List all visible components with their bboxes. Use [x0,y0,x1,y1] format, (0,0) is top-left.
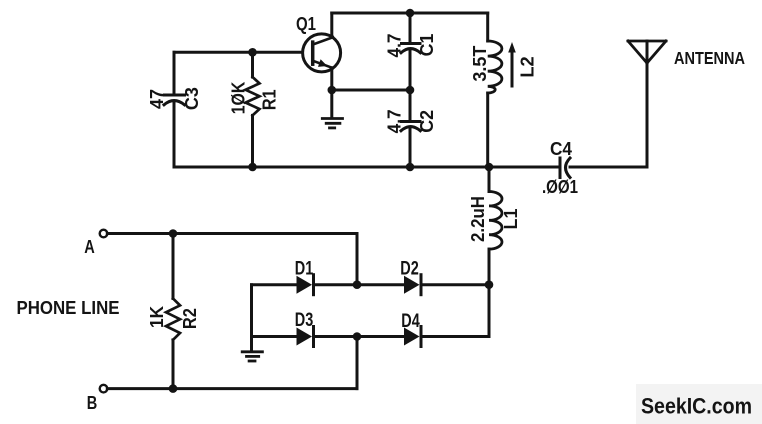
svg-text:4.7: 4.7 [385,109,405,133]
ground bridge [242,352,262,361]
svg-text:D4: D4 [401,311,420,332]
svg-text:1K: 1K [147,306,167,328]
svg-text:D3: D3 [295,310,314,331]
capacitor C1 [401,44,420,53]
wire C3 branch upper [173,52,176,95]
svg-text:Q1: Q1 [296,14,316,34]
capacitor C3 [164,95,185,105]
inductor L1 [489,192,502,250]
svg-text:D1: D1 [295,259,314,280]
wire A rail [107,232,357,235]
antenna [628,41,666,63]
wire bridge right vertical [488,285,491,337]
svg-text:A: A [84,237,95,257]
node D1 D2 junction [353,280,362,289]
wire top rail collector to L2 [332,12,488,15]
svg-text:R1: R1 [260,89,280,110]
wire mid rail [174,166,558,169]
node D3 D4 junction [353,332,362,341]
svg-text:C2: C2 [417,110,437,133]
wire R2 top lead [172,234,175,299]
resistor R1 [246,77,260,115]
node C1 C2 mid junction [406,86,415,95]
wire ground stem Q1 [330,90,333,118]
diode D3 [297,327,314,347]
svg-text:47: 47 [147,89,167,109]
svg-text:R2: R2 [180,308,200,329]
svg-text:ANTENNA: ANTENNA [674,48,745,68]
transistor Q1 [303,34,341,72]
svg-text:2.2uH: 2.2uH [468,196,488,242]
wire emitter vertical [330,68,333,90]
diode D4 [404,327,421,347]
terminal B [100,385,108,393]
wire A down to D1 D2 [356,234,359,285]
svg-text:1ØK: 1ØK [229,82,249,115]
node L junction mid rail [485,163,494,172]
ground under Q1 [322,119,342,128]
terminal A [100,230,108,238]
wire R1 bottom lead [251,115,254,167]
svg-text:3.5T: 3.5T [470,46,490,82]
svg-text:PHONE LINE: PHONE LINE [17,297,120,318]
node C2 bottom junction [406,163,415,172]
svg-text:4.7: 4.7 [385,34,405,58]
wire base from C3 to Q1 [174,51,302,54]
wire C1 lower lead [409,50,412,90]
capacitor C2 [401,122,420,131]
svg-text:D2: D2 [400,259,419,280]
svg-text:C1: C1 [417,34,437,57]
node D2 L1 junction [485,280,494,289]
wire C3 branch lower [173,102,176,167]
arrow L2 [508,42,516,86]
wire R2 bottom lead [172,340,175,389]
svg-text:SeekIC.com: SeekIC.com [641,394,752,419]
wire C2 lower lead [409,128,412,167]
wire L2 top lead [486,13,489,41]
wire D3 junction down [356,337,359,389]
resistor R2 [166,299,180,340]
wire R1 top lead [251,52,254,77]
node emitter junction [328,86,337,95]
diode D2 [404,275,421,295]
svg-text:.ØØ1: .ØØ1 [542,177,578,197]
watermark background [636,384,762,424]
node R1 top junction [248,48,257,57]
wire D3 to D4 [314,335,405,338]
node A R2 junction [169,229,178,238]
wire B rail [107,387,357,390]
wire C1 upper lead [409,13,412,44]
svg-text:C3: C3 [182,87,202,110]
diode D1 [297,275,314,295]
wire C4 to antenna [570,166,647,169]
svg-text:B: B [87,393,98,413]
svg-text:C4: C4 [550,139,572,159]
wire L2 bottom lead [486,93,489,167]
wire L1 bottom lead [488,249,491,285]
wire D1 to D2 [314,283,405,286]
wire L1 top lead [488,167,491,192]
wire emitter rail [332,89,410,92]
wire D3 anode lead [252,335,297,338]
wire C2 upper lead [409,90,412,122]
wire D2 output [421,283,489,286]
node R1 bottom junction [248,163,257,172]
node B R2 junction [169,384,178,393]
svg-text:L2: L2 [518,56,538,77]
wire collector vertical [330,13,333,37]
inductor L2 [488,41,502,93]
wire antenna vertical [646,41,649,167]
wire D1 anode lead [252,283,297,286]
wire bridge left vertical [250,285,253,351]
capacitor C4 [560,158,570,178]
svg-text:L1: L1 [501,209,521,230]
node C1 top junction [406,9,415,18]
wire D4 output [421,335,489,338]
